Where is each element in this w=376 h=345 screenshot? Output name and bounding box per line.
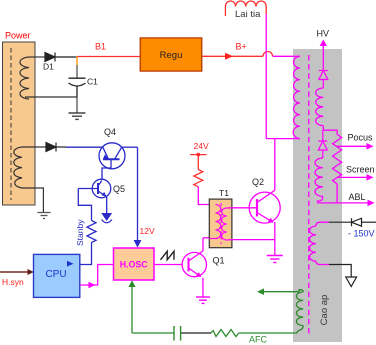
flyback dashed core line: [308, 55, 310, 336]
transistor Q1: [182, 238, 215, 297]
Regu box: [140, 38, 202, 71]
wire -150V winding bottom lead: [316, 261, 329, 264]
svg-text:ABL: ABL: [349, 192, 366, 202]
wire coil top to D1: [29, 56, 45, 58]
wire AFC winding bottom: [239, 326, 304, 333]
wire Q2 collector up: [274, 139, 276, 191]
capacitor AFC: [174, 326, 181, 341]
deflection coil Lai tia: [225, 1, 266, 16]
wire coil bottom to C1 node: [25, 96, 77, 98]
wire Q5 base to stanby resistor: [78, 189, 91, 221]
flyback screen winding: [315, 158, 323, 196]
svg-text:CPU: CPU: [45, 269, 66, 280]
diode D1: [45, 53, 77, 62]
resistor on 24V line: [194, 170, 203, 187]
H.OSC box: [114, 248, 155, 280]
wire AFC vertical into H.OSC: [131, 285, 133, 333]
wire winding bottom to ABL line: [318, 196, 323, 203]
wire T1 secondary top to Q2 base: [227, 207, 257, 209]
ground under Q1: [196, 297, 210, 303]
svg-text:C1: C1: [87, 77, 98, 87]
wire secondary bottom to ground: [22, 188, 43, 212]
diode second rectifier: [318, 130, 327, 158]
transformer T1 box: [209, 199, 232, 248]
wire resistor to CPU: [80, 243, 92, 265]
ground under C1: [69, 113, 86, 119]
diode HV rectifier: [319, 71, 328, 89]
ground open arrow -150V: [346, 277, 357, 287]
flyback HV winding: [316, 88, 324, 126]
wire Q4 collector to 12V line: [122, 146, 138, 148]
node junction orange segment above C1: [76, 57, 78, 66]
wire H.syn input: [0, 271, 28, 273]
wire -150V winding top lead: [316, 222, 329, 226]
wire Screen tap: [337, 176, 367, 178]
svg-text:- 150V: - 150V: [348, 229, 375, 239]
T1 primary winding: [216, 205, 221, 239]
wire junction to C1: [76, 65, 78, 78]
wire B1 red: [77, 56, 140, 58]
svg-text:Stanby: Stanby: [75, 219, 85, 246]
resistor stanby: [87, 221, 96, 243]
AFC winding (green): [296, 292, 303, 326]
power transformer dashed core line: [10, 48, 12, 200]
wire divider bottom to ABL line: [336, 184, 338, 203]
ground arrow under Q5: [101, 213, 112, 221]
wire ABL: [318, 202, 369, 204]
wire 24V down: [197, 155, 199, 170]
power transformer secondary winding (bottom coil): [14, 147, 22, 188]
diode D2: [46, 143, 66, 152]
resistor AFC: [211, 330, 239, 337]
wire hop over deflection line: [263, 51, 273, 56]
wire deflection line down (magenta): [265, 14, 267, 139]
svg-text:H.OSC: H.OSC: [120, 260, 149, 270]
wire B+ to flyback primary (magenta): [273, 55, 300, 57]
svg-text:Q1: Q1: [213, 256, 225, 266]
transistor Q2: [249, 190, 280, 255]
wire D2 to Q4 (blue): [66, 146, 103, 148]
svg-text:Regu: Regu: [160, 50, 183, 61]
svg-text:Q5: Q5: [113, 184, 125, 194]
wire T1 primary bottom to Q1 collector: [209, 238, 215, 240]
ground under transformer secondary: [38, 213, 51, 219]
svg-text:Screen: Screen: [346, 165, 375, 175]
wire H.OSC to Q1 base: [154, 264, 183, 266]
svg-text:Lai tia: Lai tia: [235, 9, 261, 20]
svg-text:12V: 12V: [140, 226, 155, 236]
wire AFC winding top with arrow: [263, 290, 303, 292]
svg-text:H.syn: H.syn: [2, 277, 24, 287]
transistor Q5: [78, 179, 110, 213]
wire Regu output B+: [202, 55, 263, 57]
wire AFC middle (black): [181, 332, 211, 334]
svg-text:B+: B+: [236, 42, 247, 52]
svg-text:Power: Power: [5, 31, 31, 41]
diode -150V: [352, 218, 376, 226]
wire Pocus tap: [337, 145, 367, 147]
T1 dashed core line: [220, 203, 222, 244]
Q1 emitter arrow: [196, 272, 201, 277]
Q2 emitter arrow: [268, 218, 274, 223]
svg-text:HV: HV: [317, 29, 330, 39]
flyback core gray bar: [293, 49, 342, 342]
Q5 emitter arrow: [102, 192, 107, 197]
wire HV with arrow: [322, 45, 324, 71]
wire capacitor to H.OSC drop: [132, 332, 174, 334]
svg-text:D1: D1: [43, 62, 54, 72]
svg-text:Pocus: Pocus: [348, 133, 374, 143]
flyback -150V winding: [309, 226, 316, 261]
resistor focus/screen divider: [333, 134, 342, 184]
wire C1 node down: [76, 97, 78, 113]
CPU box: [34, 254, 80, 297]
wire T1 secondary bottom to Q2 emitter node: [227, 239, 275, 241]
svg-text:AFC: AFC: [249, 335, 268, 345]
svg-text:Q2: Q2: [252, 177, 264, 187]
24V supply rail: [190, 154, 206, 156]
wire winding to focus divider: [323, 126, 337, 135]
power transformer primary winding (top coil): [20, 57, 29, 99]
svg-text:24V: 24V: [194, 141, 209, 151]
svg-text:T1: T1: [219, 188, 229, 198]
capacitor C1: [69, 78, 86, 97]
Q4 emitter arrow: [103, 154, 108, 159]
wire resistor to T1 primary: [198, 187, 215, 205]
wire 12V vertical into H.OSC: [137, 147, 139, 241]
wire secondary top to D2: [22, 146, 46, 148]
ground under Q2: [267, 256, 283, 263]
svg-text:B1: B1: [95, 42, 106, 52]
svg-text:Q4: Q4: [104, 127, 116, 137]
T1 secondary winding: [222, 208, 227, 240]
CPU output marker: [67, 261, 74, 267]
svg-text:Cao ap: Cao ap: [319, 295, 330, 326]
sawtooth waveform icon: [161, 251, 175, 259]
power transformer box: [3, 42, 36, 205]
wire collector node to flyback primary bottom: [266, 138, 300, 140]
transistor Q4: [99, 143, 125, 180]
wire CPU to H.OSC (magenta): [80, 265, 114, 286]
flyback primary winding: [293, 56, 300, 138]
